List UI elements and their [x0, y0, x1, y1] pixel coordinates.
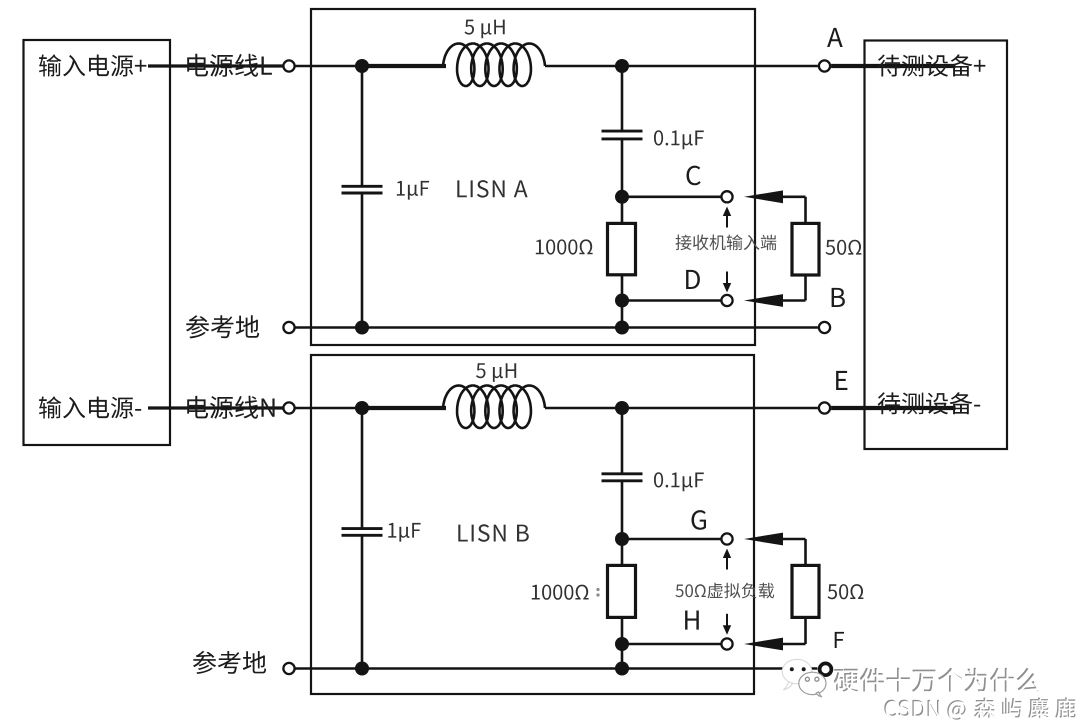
capacitor C3 1uF — [342, 527, 383, 530]
wire: C1 upper lead — [361, 66, 364, 185]
label 1uF bottom — [388, 523, 420, 542]
junction dot ground A right — [615, 321, 629, 335]
wire: C4 lower lead to node G — [621, 482, 624, 539]
terminal circle: 参考地 A — [283, 322, 294, 333]
terminal circle: node G — [721, 533, 732, 544]
box: input power source (输入电源) — [24, 40, 171, 445]
junction dot at N/C3 — [355, 401, 369, 415]
terminal circle: node A — [819, 60, 830, 71]
capacitor C2 0.1uF — [602, 130, 643, 133]
node label F — [835, 632, 844, 648]
arrow into load at H — [744, 638, 783, 651]
junction dot at L/C1 — [355, 59, 369, 73]
small arrow down toward H — [726, 614, 728, 627]
label 0.1uF top — [654, 130, 704, 149]
label 50ohm B — [828, 584, 864, 599]
small arrow up toward G — [726, 557, 728, 570]
node label H — [685, 611, 699, 630]
wire: C3 lower lead — [361, 536, 364, 668]
watermark text 硬件十万个为什么 — [834, 668, 1040, 692]
capacitor C4 0.1uF — [602, 472, 643, 475]
junction dot node H level — [615, 637, 629, 651]
wire: 50ohm top lead vertical — [804, 197, 807, 224]
wire: node H to circle H — [622, 643, 721, 646]
wire: 50ohm load top lead horizontal — [783, 538, 806, 541]
wire: R3 bottom to node H — [621, 618, 624, 645]
wire: 50ohm bottom lead horizontal — [783, 299, 806, 302]
wire: junction to inductor L1 (bold) — [362, 64, 446, 68]
terminal circle: node C — [721, 191, 732, 202]
wire: C3 upper lead — [361, 408, 364, 528]
junction dot ground B left — [355, 662, 369, 676]
wire: node C to circle C — [622, 196, 721, 199]
terminal circle: 参考地 B — [283, 663, 294, 674]
node label B — [832, 288, 845, 307]
wire: C2 lower lead to node C — [621, 140, 624, 197]
junction dot ground A left — [355, 321, 369, 335]
wire: node C to resistor R1 — [621, 197, 624, 224]
wire: ground A row — [295, 326, 818, 329]
label 5uH top — [465, 20, 505, 39]
inductor L1 5uH — [443, 44, 545, 87]
wire: 50ohm load bottom lead horizontal — [783, 643, 806, 646]
wire: junction to inductor L2 (bold) — [362, 406, 446, 410]
label 输入电源- — [39, 396, 141, 418]
wire: L line from 输入电源+ to terminal — [148, 64, 283, 67]
resistor R4 50ohm — [792, 565, 819, 617]
terminal circle: 电源线L input — [283, 60, 294, 71]
wire: inductor L1 to junction node — [545, 65, 622, 68]
wire: node D to circle D — [622, 299, 721, 302]
watermark text CSDN @森屿麋鹿 — [884, 697, 1075, 719]
label 1uF top — [397, 181, 429, 200]
wire: node G to resistor R3 — [621, 539, 624, 566]
label 0.1uF bottom — [654, 472, 704, 491]
label 50ohm A — [826, 240, 862, 255]
terminal circle: node B — [819, 322, 830, 333]
label 参考地 A — [186, 315, 259, 338]
wire: inductor L2 to junction node — [545, 407, 622, 410]
label 输入电源+ — [39, 54, 146, 76]
label 电源线L — [187, 54, 272, 77]
label 待测设备- — [878, 392, 981, 414]
wire: N terminal to junction — [295, 407, 362, 410]
label LISN B — [458, 524, 529, 542]
junction dot ground B right — [615, 662, 629, 676]
wire: 50ohm bottom lead vertical — [804, 275, 807, 301]
label 电源线N — [187, 396, 274, 419]
wire: node to terminal E — [622, 407, 818, 410]
arrow into load at G — [744, 533, 783, 546]
label LISN A — [457, 180, 527, 198]
label 50Ω虚拟负载 — [676, 583, 775, 599]
wire: node D to ground — [621, 301, 624, 328]
junction dot at L/C2 — [615, 59, 629, 73]
small arrow down toward D — [726, 272, 728, 285]
terminal circle: node E — [819, 402, 830, 413]
wire: N line from 输入电源- to terminal — [148, 406, 283, 409]
wire: L terminal to junction — [295, 65, 362, 68]
wire: R1 bottom to node D — [621, 276, 624, 301]
label 1000ohm B — [532, 585, 589, 600]
small arrow up toward C — [726, 215, 728, 228]
wire: terminal E into 待测设备- (bold) — [831, 406, 955, 410]
terminal circle: node F (bold) — [820, 663, 832, 675]
arrow into receiver at C — [744, 190, 783, 203]
capacitor C1 1uF — [342, 185, 383, 188]
watermark logo: big chat bubble — [782, 659, 812, 690]
resistor R1 1000ohm — [608, 223, 636, 274]
terminal circle: 电源线N input — [283, 402, 294, 413]
junction dot node D level — [615, 294, 629, 308]
resistor R3 1000ohm — [608, 565, 636, 617]
wire: C4 upper lead — [621, 408, 624, 473]
box: LISN A enclosure — [311, 9, 755, 345]
wire: node H to ground — [621, 644, 624, 669]
node label G — [692, 510, 707, 530]
node label C — [687, 166, 701, 186]
terminal circle: node D — [721, 295, 732, 306]
label 1000ohm A — [536, 239, 593, 254]
junction dot at N/C4 — [615, 401, 629, 415]
wire: 50ohm load top lead vertical — [804, 539, 807, 566]
label 5uH bottom — [476, 363, 516, 382]
label 待测设备+ — [878, 54, 986, 76]
label 接收机输入端 — [676, 235, 777, 251]
node label A — [827, 28, 843, 47]
wire: 50ohm load bottom lead vertical — [804, 617, 807, 644]
wire: ground B row — [295, 667, 818, 670]
wire: terminal A into 待测设备+ (bold) — [831, 64, 955, 68]
junction dot node C level — [615, 190, 629, 204]
node label E — [836, 371, 847, 390]
box: device under test (待测设备) — [865, 41, 1008, 450]
watermark logo: small chat bubble — [799, 672, 826, 697]
junction dot node G level — [615, 532, 629, 546]
node label D — [686, 270, 700, 289]
box: LISN B enclosure — [311, 355, 754, 694]
label 参考地 B — [193, 651, 266, 674]
resistor R2 50ohm — [792, 223, 819, 275]
wire: 50ohm top lead horizontal — [783, 196, 806, 199]
wire: C2 upper lead — [621, 66, 624, 130]
wire: node to terminal A — [622, 65, 818, 68]
stray colon artifact — [596, 588, 599, 591]
wire: C1 lower lead — [361, 194, 364, 328]
wire: node G to circle G — [622, 538, 721, 541]
terminal circle: node H — [721, 638, 732, 649]
arrow into receiver at D — [744, 294, 783, 307]
inductor L2 5uH — [443, 386, 545, 429]
